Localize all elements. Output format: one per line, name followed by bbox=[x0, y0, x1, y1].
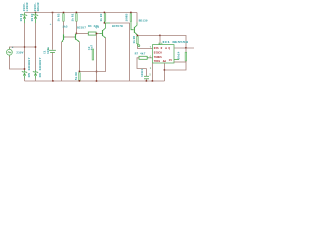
wire R5 to Q4 base bbox=[131, 21, 134, 30]
svg-text:10k: 10k bbox=[125, 16, 129, 22]
svg-text:Δ Q: Δ Q bbox=[165, 47, 170, 50]
wire Q2 collector node to R4 bbox=[77, 33, 89, 35]
resistor R8 vertical bbox=[79, 73, 81, 81]
svg-text:THRES: THRES bbox=[154, 56, 162, 59]
svg-text:R6: R6 bbox=[133, 36, 136, 40]
svg-text:1N: 1N bbox=[31, 18, 34, 22]
junction R2 bottom bbox=[104, 22, 106, 24]
svg-text:R2: R2 bbox=[100, 13, 103, 17]
wire Q2 emitter down x=79.5 bbox=[79, 42, 81, 72]
junction Q2 collector node bbox=[76, 33, 78, 35]
junction at (164.5,70) bbox=[164, 69, 166, 71]
wire source bottom to bridge y=69 bbox=[10, 56, 25, 69]
svg-text:1k: 1k bbox=[70, 18, 74, 22]
wire top VCC rail y=12.5 bbox=[25, 12, 138, 14]
svg-text:D1: D1 bbox=[20, 13, 23, 17]
diode D4 (bridge bottom, cathode up) bbox=[33, 70, 38, 79]
svg-text:DISCH: DISCH bbox=[154, 52, 162, 55]
svg-text:D5 1N4007: D5 1N4007 bbox=[28, 57, 31, 77]
svg-text:1k: 1k bbox=[132, 40, 136, 44]
capacitor C4 vertical bbox=[185, 48, 187, 52]
junction IC top pin bbox=[159, 35, 161, 37]
svg-text:TRIG: TRIG bbox=[154, 60, 161, 63]
junction R6 top bbox=[137, 35, 139, 37]
svg-text:5k: 5k bbox=[74, 76, 78, 80]
AC source B1 bbox=[6, 48, 12, 58]
svg-text:1k5: 1k5 bbox=[62, 24, 68, 28]
resistor R6 vertical bbox=[137, 36, 139, 43]
wire R4 to Q3 base bbox=[97, 33, 100, 35]
transistor Q4 bbox=[134, 23, 137, 35]
wire R7 right to IC pin THR bbox=[147, 57, 149, 59]
svg-text:BD139: BD139 bbox=[139, 19, 148, 22]
junction Q2 emitter node bbox=[79, 71, 81, 73]
svg-text:DIS: DIS bbox=[154, 47, 159, 50]
junction R8-ground bbox=[79, 80, 81, 82]
diode D2 (bridge, cathode up) bbox=[33, 13, 38, 24]
junction GND-rail bbox=[152, 80, 154, 82]
Q1 emitter arrow bbox=[62, 41, 64, 43]
svg-text:R8: R8 bbox=[75, 72, 78, 76]
junction rail-C1 bbox=[52, 12, 54, 14]
diode D3 (bridge bottom, cathode up) bbox=[22, 70, 27, 79]
wire IC bottom pin x=164.5 bbox=[164, 63, 166, 81]
resistor R5 vertical bbox=[130, 14, 132, 22]
resistor R4 horizontal bbox=[88, 32, 96, 35]
wire IC GND pin down bbox=[152, 63, 154, 81]
svg-text:BC557: BC557 bbox=[77, 27, 86, 30]
wire R6 bottom to IC pin DIS bbox=[137, 44, 139, 46]
svg-text:CV: CV bbox=[169, 59, 173, 62]
capacitor C1 electrolytic bbox=[52, 13, 54, 50]
junction at (36,47) bbox=[35, 46, 37, 48]
junction rail-R2 bbox=[104, 12, 106, 14]
svg-text:D2: D2 bbox=[31, 13, 34, 17]
wire D2 column down x=36 bbox=[35, 23, 37, 70]
teal junction dot above source bbox=[12, 47, 13, 48]
IC1 NE555 box bbox=[153, 45, 175, 63]
wire R3 to Q1 collector bbox=[63, 21, 65, 34]
svg-text:1k: 1k bbox=[56, 18, 60, 22]
wire D1 column down x=25 bbox=[24, 23, 26, 70]
wire IC OUT pin y=48 bbox=[174, 47, 194, 49]
svg-text:D6 1N4007: D6 1N4007 bbox=[39, 57, 42, 77]
svg-text:8 4: 8 4 bbox=[158, 42, 163, 45]
wire source top to bridge y=47 bbox=[10, 47, 36, 49]
junction at crossing (25,47) bbox=[24, 46, 25, 47]
wire R1 down to Q2 collector node bbox=[76, 21, 78, 33]
green pin stub right CV bbox=[174, 59, 179, 61]
svg-text:Q3: Q3 bbox=[95, 26, 99, 29]
svg-text:BC557B: BC557B bbox=[112, 25, 123, 28]
resistor R3 vertical bbox=[63, 14, 65, 22]
Q3 emitter arrow bbox=[104, 37, 106, 39]
wire D3/D4 bottoms to ground rail bbox=[24, 79, 26, 82]
transistor Q1 bbox=[62, 34, 66, 42]
Q2 emitter arrow bbox=[78, 40, 80, 42]
svg-text:R7 4k7: R7 4k7 bbox=[135, 51, 146, 55]
svg-text:R3: R3 bbox=[57, 13, 60, 17]
resistor R2 vertical bbox=[104, 14, 106, 22]
svg-text:ΔΔ: ΔΔ bbox=[163, 60, 167, 63]
resistor R7 horizontal bbox=[139, 56, 147, 59]
svg-text:R1: R1 bbox=[71, 13, 74, 17]
junction C2-emitter rail bbox=[96, 71, 98, 73]
junction at (25,69) bbox=[24, 68, 26, 70]
junction rail-R1 bbox=[76, 12, 78, 14]
svg-text:230V: 230V bbox=[16, 52, 23, 55]
svg-text:+: + bbox=[50, 23, 52, 26]
svg-text:1: 1 bbox=[150, 67, 152, 70]
svg-text:N2E30: N2E30 bbox=[37, 2, 40, 11]
junction rail-R5 bbox=[130, 12, 132, 14]
wire Q3 emitter down bbox=[80, 38, 106, 72]
wire Q1 emitter down x=61 bbox=[61, 42, 63, 81]
svg-text:1N: 1N bbox=[20, 18, 23, 22]
junction C3-ground bbox=[146, 80, 148, 82]
junction at (186,48) bbox=[185, 47, 187, 49]
wire R4 node down to ground bbox=[96, 34, 98, 81]
wire IC right bottom pin y=62 bbox=[174, 61, 186, 63]
green mark R6 bottom bbox=[138, 45, 140, 47]
wire Q1 base to Q2 bbox=[65, 36, 75, 38]
junction C1-ground rail bbox=[52, 80, 54, 82]
resistor R1 vertical bbox=[76, 14, 78, 22]
wire R2 bottom to Q3 collector and long wire right bbox=[105, 21, 111, 23]
svg-text:IC1 NE555N: IC1 NE555N bbox=[162, 41, 188, 44]
Q4 emitter arrow bbox=[136, 34, 138, 36]
junction rail-R3 bbox=[63, 12, 65, 14]
transistor Q3 bbox=[103, 23, 106, 38]
svg-text:L1N30: L1N30 bbox=[26, 2, 29, 11]
wire rail corner down to Q4 collector x=137 bbox=[136, 13, 138, 23]
svg-text:10n: 10n bbox=[177, 54, 180, 60]
svg-text:10n: 10n bbox=[141, 71, 144, 77]
junction rail-D2 bbox=[35, 12, 37, 14]
capacitor C2 green bar bbox=[92, 49, 94, 60]
svg-text:5: 5 bbox=[149, 73, 151, 76]
wire R7 left down to C3 bbox=[137, 58, 147, 69]
wire bottom-right loop y=70 bbox=[165, 62, 187, 70]
diode D1 (bridge, cathode up) bbox=[22, 13, 27, 24]
ground rail y=81 bbox=[25, 80, 165, 82]
svg-text:1k: 1k bbox=[99, 18, 103, 22]
capacitor C3 bbox=[146, 69, 148, 77]
wire Q4 emitter node y=35.5 to right bbox=[138, 35, 187, 48]
wire IC top pin bbox=[159, 36, 161, 43]
transistor Q2 bbox=[74, 34, 80, 42]
junction R4-C2 bbox=[96, 33, 98, 35]
junction C2-ground rail bbox=[96, 80, 98, 82]
